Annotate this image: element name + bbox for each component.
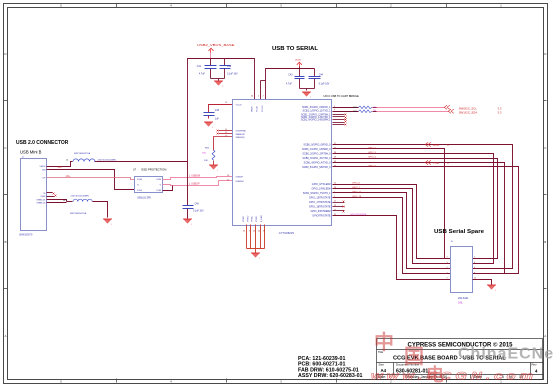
svg-text:R6B: R6B <box>353 111 358 113</box>
svg-text:USB TO SERIAL: USB TO SERIAL <box>272 46 319 52</box>
svg-text:220Ohm@100MHz: 220Ohm@100MHz <box>71 196 90 198</box>
svg-text:1 D+: 1 D+ <box>66 176 72 178</box>
svg-text:VSSIO: VSSIO <box>247 215 249 222</box>
svg-text:SW1/I2C_SDA: SW1/I2C_SDA <box>459 111 478 115</box>
svg-text:RXD: RXD <box>433 143 440 147</box>
svg-text:IO2A: IO2A <box>137 178 142 181</box>
svg-text:VCCD: VCCD <box>236 104 243 106</box>
svg-text:DNL: DNL <box>458 302 463 305</box>
svg-text:1: 1 <box>334 192 335 194</box>
svg-text:GPIO_4: GPIO_4 <box>368 156 377 158</box>
svg-text:220Ohm@100MHz: 220Ohm@100MHz <box>98 159 117 161</box>
svg-text:1 D-: 1 D- <box>58 167 63 169</box>
svg-text:GPIO_6: GPIO_6 <box>352 182 361 184</box>
svg-text:SHIELD1: SHIELD1 <box>36 200 46 202</box>
svg-text:VCCD: VCCD <box>257 106 259 112</box>
svg-text:3.3: 3.3 <box>498 111 502 115</box>
svg-text:GPIO_15TRISTATE: GPIO_15TRISTATE <box>309 196 331 199</box>
svg-text:5: 5 <box>334 106 335 108</box>
svg-text:7: 7 <box>263 96 264 98</box>
svg-text:8: 8 <box>474 272 475 274</box>
svg-text:GPIO_17TRISTATE: GPIO_17TRISTATE <box>309 201 331 204</box>
svg-text:VBUS: VBUS <box>40 166 46 168</box>
svg-text:中: 中 <box>374 330 394 354</box>
svg-text:29: 29 <box>334 157 336 159</box>
svg-text:34: 34 <box>263 231 265 233</box>
svg-text:1 USBDP: 1 USBDP <box>189 183 200 186</box>
svg-text:4.7uF: 4.7uF <box>199 74 205 76</box>
svg-text:IO1B: IO1B <box>156 190 161 192</box>
svg-text:1: 1 <box>447 257 448 259</box>
svg-text:Rev: Rev <box>532 363 538 367</box>
svg-text:DNL: DNL <box>202 153 207 155</box>
svg-text:CY7C65215: CY7C65215 <box>279 231 295 235</box>
svg-text:32: 32 <box>334 214 336 216</box>
svg-text:4: 4 <box>474 262 475 264</box>
svg-text:GPIO_18TRISTATE: GPIO_18TRISTATE <box>309 205 331 208</box>
svg-text:0.1uF 16V: 0.1uF 16V <box>227 74 238 76</box>
svg-text:GPIO_12: GPIO_12 <box>352 191 362 193</box>
svg-text:GPIO_1/RXLED#: GPIO_1/RXLED# <box>312 187 332 190</box>
svg-text:A: A <box>4 334 6 338</box>
svg-text:GPIO_2: GPIO_2 <box>368 147 377 149</box>
svg-text:WAKEUP: WAKEUP <box>236 133 246 136</box>
svg-text:SCB0_1/GPIO_1/DSR#_0: SCB0_1/GPIO_1/DSR#_0 <box>302 148 331 151</box>
svg-text:4.7uF: 4.7uF <box>286 84 292 86</box>
svg-text:SCB0_3/GPIO_3/CTS#_0: SCB0_3/GPIO_3/CTS#_0 <box>302 157 331 160</box>
svg-text:SUSPEND: SUSPEND <box>236 131 247 133</box>
svg-text:VDDD: VDDD <box>295 60 302 62</box>
svg-text:VSSD: VSSD <box>256 216 258 222</box>
svg-text:C46: C46 <box>195 204 200 206</box>
svg-text:GPIO_16: GPIO_16 <box>352 196 362 198</box>
svg-text:U6 IC:USB TO UART BRIDGE: U6 IC:USB TO UART BRIDGE <box>324 94 360 98</box>
svg-text:USBDM: USBDM <box>236 181 244 183</box>
svg-text:10K: 10K <box>204 160 208 162</box>
svg-text:17: 17 <box>334 143 336 145</box>
svg-text:IO1A: IO1A <box>137 189 142 192</box>
svg-text:SCB0_2/GPIO_2/RTS#_0: SCB0_2/GPIO_2/RTS#_0 <box>302 152 331 155</box>
svg-text:USBDP: USBDP <box>236 177 244 179</box>
svg-text:GPIO_7: GPIO_7 <box>352 187 361 189</box>
svg-text:ASSY DRW: 620-60283-01: ASSY DRW: 620-60283-01 <box>298 373 363 379</box>
svg-text:USB 2.0 CONNECTOR: USB 2.0 CONNECTOR <box>16 140 69 146</box>
svg-text:TXD: TXD <box>433 161 440 165</box>
svg-text:GND: GND <box>41 196 46 198</box>
svg-text:GPIO_5: GPIO_5 <box>368 165 377 167</box>
svg-text:30: 30 <box>251 96 253 98</box>
svg-text:SCB1_4/GPIO_14/DSR#_1: SCB1_4/GPIO_14/DSR#_1 <box>301 118 331 121</box>
svg-text:25: 25 <box>334 183 336 185</box>
svg-text:SCB0_5/GPIO_5/DTR#_0: SCB0_5/GPIO_5/DTR#_0 <box>302 166 331 169</box>
svg-text:MPZ1608S221A: MPZ1608S221A <box>74 152 91 155</box>
svg-text:XRES(N): XRES(N) <box>236 137 245 139</box>
svg-text:20: 20 <box>253 231 255 233</box>
svg-text:C41: C41 <box>197 66 202 68</box>
svg-text:USB Mini B: USB Mini B <box>20 150 42 155</box>
svg-text:DM: DM <box>42 170 46 172</box>
svg-text:SCB1_5/GPIO_TSOT#_1: SCB1_5/GPIO_TSOT#_1 <box>303 192 331 195</box>
svg-text:9: 9 <box>447 278 448 280</box>
svg-text:9: 9 <box>249 231 250 233</box>
svg-text:4: 4 <box>334 109 335 111</box>
svg-text:C42: C42 <box>227 66 232 68</box>
svg-text:ChinaECNet: ChinaECNet <box>458 346 554 363</box>
svg-text:C43: C43 <box>288 75 293 77</box>
svg-text:6: 6 <box>474 267 475 269</box>
svg-text:A: A <box>544 334 546 338</box>
svg-text:202-S101: 202-S101 <box>458 297 469 300</box>
svg-text:SCB0_4/GPIO_4/TXD_0: SCB0_4/GPIO_4/TXD_0 <box>304 161 331 164</box>
svg-text:E_PAD: E_PAD <box>260 215 263 222</box>
svg-text:Size: Size <box>379 363 385 367</box>
svg-text:1 USBDM: 1 USBDM <box>189 175 200 178</box>
svg-text:26: 26 <box>334 187 336 189</box>
svg-text:SCB1_1/GPIO_11/TXD_1: SCB1_1/GPIO_11/TXD_1 <box>303 110 332 113</box>
svg-text:MPZ1608S221A: MPZ1608S221A <box>70 212 87 215</box>
svg-text:0.1uF 10V: 0.1uF 10V <box>193 211 204 213</box>
svg-text:B: B <box>4 240 6 244</box>
svg-text:2: 2 <box>474 257 475 259</box>
svg-text:5: 5 <box>447 267 448 269</box>
svg-text:VCCIO: VCCIO <box>262 105 264 112</box>
svg-text:GPIO/TRISTATE: GPIO/TRISTATE <box>312 214 331 217</box>
svg-text:DP: DP <box>42 178 46 180</box>
svg-text:GPIO_3: GPIO_3 <box>368 152 377 154</box>
svg-text:7: 7 <box>447 272 448 274</box>
svg-text:C45: C45 <box>215 110 220 112</box>
svg-text:B: B <box>544 240 546 244</box>
svg-text:USBLC6-2P6: USBLC6-2P6 <box>137 198 152 200</box>
svg-text:R6A: R6A <box>353 106 358 109</box>
svg-text:33: 33 <box>243 231 245 233</box>
svg-text:VSSD: VSSD <box>243 216 245 222</box>
svg-text:0548190579: 0548190579 <box>19 234 33 237</box>
svg-text:27: 27 <box>334 148 336 150</box>
svg-text:2: 2 <box>334 196 335 198</box>
svg-text:30: 30 <box>334 161 336 163</box>
svg-text:VBUS: VBUS <box>251 106 253 112</box>
svg-text:GPIO/TRISTATE: GPIO/TRISTATE <box>350 213 367 216</box>
svg-text:USB Serial Spare: USB Serial Spare <box>434 229 484 235</box>
svg-text:ESD PROTECTION: ESD PROTECTION <box>142 168 167 172</box>
svg-text:国: 国 <box>404 346 424 368</box>
svg-text:3: 3 <box>447 262 448 264</box>
svg-text:24: 24 <box>258 231 260 233</box>
svg-text:GPIO_9/POWER#: GPIO_9/POWER# <box>310 210 331 213</box>
svg-text:0.1uF 16V: 0.1uF 16V <box>319 84 330 86</box>
svg-text:SCB0_0/GPIO_0/RXD_0: SCB0_0/GPIO_0/RXD_0 <box>303 143 331 146</box>
svg-text:SHIELD2: SHIELD2 <box>36 203 46 205</box>
svg-text:GPIO_0/TXLED#: GPIO_0/TXLED# <box>312 183 331 186</box>
svg-text:USB2_VBUS_BASE: USB2_VBUS_BASE <box>197 43 235 47</box>
svg-text:VSSA: VSSA <box>251 216 254 222</box>
svg-text:28: 28 <box>334 152 336 154</box>
svg-text:w w w . E C G N . c o m: w w w . E C G N . c o m <box>371 371 533 383</box>
svg-text:33: 33 <box>334 166 336 168</box>
svg-text:2: 2 <box>258 96 259 98</box>
svg-text:C44: C44 <box>319 75 324 77</box>
svg-text:1uF: 1uF <box>215 119 220 121</box>
svg-text:IO2B: IO2B <box>156 179 161 181</box>
